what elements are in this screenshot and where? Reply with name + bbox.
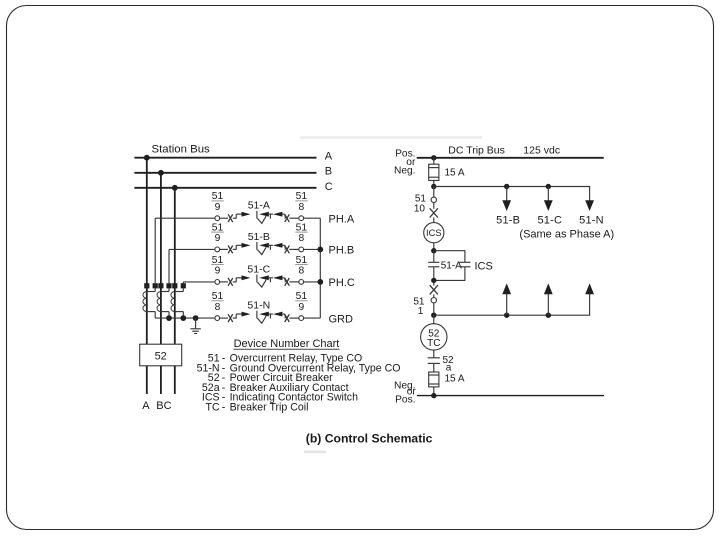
wire [289, 281, 298, 283]
label 52 a [443, 355, 455, 373]
svg-text:10: 10 [414, 204, 426, 215]
test switch [228, 214, 233, 222]
svg-text:ICS: ICS [426, 228, 442, 238]
chart line ICS [202, 392, 358, 404]
arrow from 51-B [502, 283, 511, 315]
junction bus C tap [172, 185, 178, 191]
coil 52 TC (breaker trip coil) [421, 315, 447, 350]
svg-text:Breaker Trip Coil: Breaker Trip Coil [230, 401, 309, 413]
junction CT-C return [180, 315, 186, 321]
bus A [134, 151, 332, 163]
svg-text:8: 8 [215, 302, 221, 313]
label 51/9 [211, 255, 224, 277]
svg-text:ICS: ICS [475, 260, 493, 272]
wire [220, 248, 228, 250]
wire CT secondary common [155, 317, 215, 319]
relay contact row PH.B [169, 222, 354, 256]
wire seal-in loop [434, 251, 465, 281]
wire [289, 248, 298, 250]
CT phase C (primary marks, secondary coil) [171, 282, 186, 318]
junction branch 51-B [504, 184, 509, 189]
test switch [430, 208, 438, 217]
svg-text:51-C: 51-C [537, 215, 562, 227]
wire [220, 217, 228, 219]
svg-text:C: C [325, 181, 333, 193]
svg-text:PH.B: PH.B [329, 245, 355, 257]
coil ICS (indicating contactor switch) [424, 223, 444, 243]
svg-text:9: 9 [215, 266, 221, 277]
terminal left [215, 316, 220, 321]
terminal right [299, 247, 304, 252]
junction negative bus tap [431, 393, 436, 398]
wire [284, 248, 287, 250]
wire phase C drop [174, 188, 176, 344]
svg-text:TC: TC [427, 338, 440, 349]
wire to CT secondary [169, 248, 215, 250]
terminal left [215, 247, 220, 252]
wire [433, 294, 435, 297]
label 51/9 [211, 222, 224, 244]
contact 51-A [428, 251, 439, 281]
wire [433, 218, 435, 223]
terminal right [299, 216, 304, 221]
test switch [228, 314, 233, 322]
svg-text:51-C: 51-C [247, 263, 270, 275]
svg-text:A: A [325, 151, 333, 163]
junction ground tap [193, 315, 199, 321]
label 51/8 [295, 255, 308, 277]
svg-text:DC Trip Bus: DC Trip Bus [448, 144, 505, 156]
wire [433, 303, 435, 315]
junction PH.C [317, 279, 323, 285]
wire [433, 203, 435, 209]
wire breaker phase C stub [174, 366, 176, 394]
wire [289, 217, 298, 219]
svg-text:51-B: 51-B [248, 231, 270, 243]
arrow to 51-C [544, 187, 553, 212]
terminal left [215, 216, 220, 221]
wire phase B drop [160, 173, 162, 344]
svg-text:(Same as Phase A): (Same as Phase A) [519, 228, 614, 240]
wire upper branch to phases B C N [434, 187, 590, 202]
svg-text:Station Bus: Station Bus [152, 143, 211, 155]
svg-text:9: 9 [299, 302, 305, 313]
chart line 51-N [197, 362, 401, 374]
svg-text:52: 52 [155, 350, 167, 362]
wire [433, 280, 435, 285]
contact 51-A [233, 211, 286, 224]
svg-text:GRD: GRD [329, 313, 354, 325]
wire breaker phase B stub [160, 366, 162, 394]
bus C [134, 181, 332, 193]
label Neg. or Pos. [394, 381, 416, 406]
wire breaker phase A stub [146, 366, 148, 394]
junction CT-B return [166, 315, 172, 321]
junction seal-in bottom [431, 278, 436, 283]
wire to trip column [304, 281, 321, 283]
test switch [285, 214, 290, 222]
contact 51-N [233, 311, 286, 324]
DC trip bus (positive) [417, 157, 604, 159]
fuse F2 15 A [429, 372, 465, 396]
junction branch 51-C [546, 184, 551, 189]
svg-text:15 A: 15 A [445, 167, 465, 178]
contact 51-C [233, 275, 286, 288]
junction upper branch [431, 184, 436, 189]
svg-text:51-A: 51-A [248, 200, 270, 212]
wire [284, 317, 287, 319]
label Device Number Chart [234, 338, 340, 350]
wire to CT secondary [155, 217, 215, 219]
svg-text:Neg.: Neg. [394, 166, 416, 177]
contact 52a (breaker auxiliary) [428, 358, 440, 372]
junction PH.B [317, 247, 323, 253]
terminal right [299, 280, 304, 285]
terminal right [299, 316, 304, 321]
svg-text:-: - [222, 401, 226, 413]
fuse F1 15 A [429, 158, 465, 187]
ground [190, 318, 200, 333]
svg-text:9: 9 [215, 202, 221, 213]
svg-text:8: 8 [299, 233, 305, 244]
relay contact row GRD [211, 291, 353, 325]
test switch [285, 278, 290, 286]
wire phase A drop [146, 158, 148, 345]
terminal 1 [431, 298, 436, 303]
svg-text:9: 9 [215, 233, 221, 244]
wire [433, 243, 435, 251]
wire [220, 281, 228, 283]
chart line 52a [202, 382, 349, 394]
junction lower 51-C [546, 313, 551, 318]
label 51/10 [414, 194, 427, 215]
svg-text:PH.C: PH.C [329, 277, 355, 289]
junction bus B tap [158, 170, 164, 176]
wire lower branch from phases B C N [434, 294, 590, 316]
DC negative bus [417, 395, 604, 397]
relay contact row PH.A [155, 191, 355, 225]
test switch [228, 246, 233, 254]
contact 51-B [233, 242, 286, 255]
chart line 51 [208, 353, 362, 365]
wire row interconnect column [319, 218, 321, 318]
wire [289, 317, 298, 319]
contact ICS seal-in [459, 262, 470, 267]
terminal left [215, 280, 220, 285]
junction lower branch [431, 313, 436, 318]
svg-text:51-A: 51-A [441, 260, 462, 271]
wire to trip column [304, 248, 321, 250]
wire to trip column [304, 217, 321, 219]
label 51/8 [295, 222, 308, 244]
svg-text:51-B: 51-B [496, 215, 520, 227]
relay contact row PH.C [183, 255, 355, 289]
wire [433, 187, 435, 198]
breaker 52 [140, 344, 182, 366]
test switch [228, 278, 233, 286]
chart line 52 [208, 372, 333, 384]
CT phase A (primary marks, secondary coil) [143, 218, 158, 318]
svg-text:TC: TC [205, 401, 219, 413]
label A BC [142, 400, 171, 412]
junction lower 51-B [504, 313, 509, 318]
svg-text:8: 8 [299, 266, 305, 277]
svg-text:1: 1 [418, 306, 424, 317]
arrow to 51-B [502, 187, 511, 212]
svg-text:8: 8 [299, 202, 305, 213]
svg-text:Device Number Chart: Device Number Chart [234, 338, 340, 350]
label 51/8 [295, 191, 308, 213]
label 51/9 [211, 191, 224, 213]
label 51/1 [413, 296, 425, 317]
svg-text:A: A [142, 400, 150, 412]
wire [284, 217, 287, 219]
arrow from 51-N [585, 283, 594, 294]
CT phase B (primary marks, secondary coil) [157, 249, 172, 318]
svg-text:PH.A: PH.A [329, 213, 355, 225]
label 51/9 [295, 291, 308, 313]
bus B [134, 166, 332, 178]
label Pos. or Neg. [394, 148, 416, 176]
svg-text:(b) Control Schematic: (b) Control Schematic [306, 432, 433, 446]
svg-text:125 vdc: 125 vdc [523, 144, 560, 156]
junction seal-in top [431, 248, 436, 253]
terminal 10 [431, 197, 436, 202]
arrow to 51-N [585, 200, 594, 211]
arrow from 51-C [544, 283, 553, 315]
faint scan streak [300, 136, 482, 139]
wire [220, 317, 228, 319]
wire [284, 281, 287, 283]
wire [433, 350, 435, 358]
svg-text:51-N: 51-N [579, 215, 604, 227]
test switch [285, 246, 290, 254]
svg-text:51-N: 51-N [247, 300, 270, 312]
label 51/8 [211, 291, 224, 313]
wire to CT secondary [183, 281, 215, 283]
svg-text:B: B [325, 166, 332, 178]
chart line TC [205, 401, 308, 413]
test switch [285, 314, 290, 322]
test switch [430, 285, 438, 294]
svg-text:15 A: 15 A [445, 373, 465, 384]
junction trip bus tap [431, 155, 436, 160]
svg-text:BC: BC [156, 400, 171, 412]
svg-text:a: a [446, 362, 452, 373]
svg-text:Pos.: Pos. [395, 395, 415, 406]
wire to trip column [304, 317, 321, 319]
junction bus A tap [144, 155, 150, 161]
